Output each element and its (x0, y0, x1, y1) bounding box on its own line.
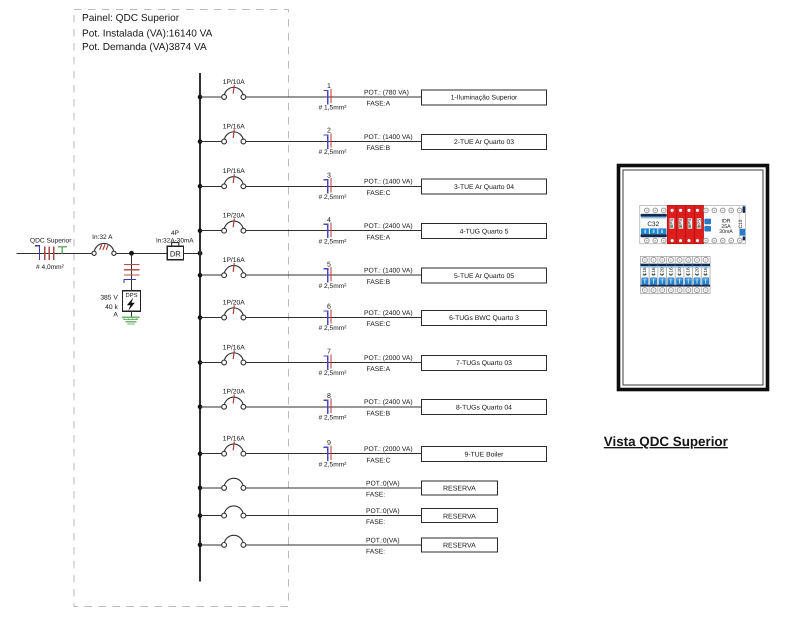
svg-text:30mA: 30mA (719, 229, 733, 235)
wire breaker to load circuit 8 (246, 406, 422, 408)
node bus junction circuit 1 (198, 95, 203, 100)
circuit 3 number label (327, 173, 331, 180)
svg-text:# 2,5mm²: # 2,5mm² (319, 238, 348, 245)
circuit 2 number label (327, 128, 331, 135)
caption Vista QDC Superior (604, 434, 729, 449)
breaker C20 (panel row2 pos 7) (693, 257, 702, 294)
feeder cable size label # 4,0mm2 (36, 264, 65, 271)
breaker C16 (panel row2 pos 2) (649, 257, 658, 294)
wire DR to bus (184, 252, 200, 254)
circuit 1 phase tick (red) (330, 89, 332, 103)
circuit 3 POT/FASE labels (364, 179, 413, 197)
svg-text:POT.:0(VA): POT.:0(VA) (366, 508, 400, 515)
svg-text:5-TUE Ar Quarto 05: 5-TUE Ar Quarto 05 (454, 273, 514, 280)
breaker reserva 1 (222, 478, 246, 490)
svg-text:40 k: 40 k (105, 304, 118, 311)
circuit 8 load box (421, 400, 546, 415)
svg-text:FASE:C: FASE:C (367, 190, 391, 197)
wire breaker to reserva box 2 (246, 515, 422, 517)
breaker C10 (panel) (738, 206, 745, 240)
circuit 9 number label (327, 440, 331, 447)
node bus junction reserva 1 (198, 486, 203, 491)
wire bus to breaker circuit 9 (200, 453, 222, 455)
circuit 7 phase tick (red) (330, 354, 332, 368)
wire breaker to DR (116, 252, 167, 254)
breaker 1P/16A circuit 9 (222, 436, 246, 457)
svg-text:FASE:B: FASE:B (367, 145, 391, 152)
svg-text:1P/16A: 1P/16A (223, 436, 245, 443)
node junction to DPS (129, 251, 134, 256)
svg-text:# 2,5mm²: # 2,5mm² (319, 325, 348, 332)
circuit 7 cable size label (319, 370, 348, 377)
breaker 1P/16A circuit 5 (222, 257, 246, 278)
svg-text:# 4,0mm²: # 4,0mm² (36, 264, 65, 271)
svg-text:4P: 4P (171, 230, 179, 237)
circuit 9 POT/FASE labels (364, 446, 413, 464)
circuit 2 neutral tick (blue) (324, 135, 328, 149)
circuit 6 neutral tick (blue) (324, 311, 328, 325)
wire bus to breaker circuit 5 (200, 274, 222, 276)
svg-text:FASE:: FASE: (366, 519, 385, 526)
node bus junction circuit 3 (198, 184, 203, 189)
circuit 3 cable size label (319, 194, 348, 201)
circuit 3 load box (421, 179, 546, 194)
reserva 1 box (421, 481, 497, 495)
svg-text:385 V: 385 V (100, 295, 118, 302)
svg-text:FASE:C: FASE:C (367, 321, 391, 328)
circuit 5 load box (421, 268, 546, 283)
wire bus to breaker circuit 2 (200, 141, 222, 143)
svg-text:# 2,5mm²: # 2,5mm² (319, 461, 348, 468)
svg-text:7-TUGs Quarto 03: 7-TUGs Quarto 03 (456, 360, 512, 367)
wire bus to breaker circuit 3 (200, 185, 222, 187)
node QDC Superior label (30, 238, 72, 245)
node bus junction circuit 9 (198, 451, 203, 456)
wire bus to breaker circuit 7 (200, 362, 222, 364)
svg-text:FASE:A: FASE:A (367, 234, 391, 241)
breaker C20 (panel row2 pos 3) (658, 257, 667, 294)
circuit 8 neutral tick (blue) (324, 400, 328, 414)
svg-text:# 2,5mm²: # 2,5mm² (319, 370, 348, 377)
svg-text:In:32A-30mA: In:32A-30mA (156, 237, 194, 244)
circuit 1 load box (421, 90, 546, 105)
svg-text:1P/20A: 1P/20A (223, 299, 245, 306)
circuit 8 POT/FASE labels (364, 399, 413, 417)
node bus junction circuit 7 (198, 360, 203, 365)
svg-text:6-TUGs BWC Quarto 3: 6-TUGs BWC Quarto 3 (449, 315, 519, 322)
bus vertical (199, 73, 201, 581)
circuit 7 POT/FASE labels (364, 355, 413, 373)
svg-text:POT.: (1400 VA): POT.: (1400 VA) (364, 179, 413, 186)
DPS drop neutral tick (blue) (124, 280, 136, 284)
node bus junction circuit 2 (198, 139, 203, 144)
circuit 8 number label (327, 393, 331, 400)
breaker C16 (panel row2 pos 1) (641, 257, 650, 294)
svg-text:POT.: (2000 VA): POT.: (2000 VA) (364, 355, 413, 362)
svg-text:1P/16A: 1P/16A (223, 168, 245, 175)
circuit 6 phase tick (red) (330, 309, 332, 323)
circuit 5 POT/FASE labels (364, 268, 413, 286)
svg-text:FASE:C: FASE:C (367, 457, 391, 464)
breaker 1P/16A circuit 7 (222, 344, 246, 365)
node bus junction reserva 3 (198, 543, 203, 548)
svg-text:DR: DR (170, 249, 181, 258)
svg-text:C10: C10 (738, 219, 744, 228)
wire breaker to load circuit 4 (246, 230, 422, 232)
wire bus to breaker circuit 6 (200, 317, 222, 319)
circuit 2 phase tick (red) (330, 133, 332, 147)
circuit 2 cable size label (319, 149, 348, 156)
circuit 5 cable size label (319, 283, 348, 290)
feeder neutral tick (blue) (35, 246, 39, 260)
svg-text:POT.: (2400 VA): POT.: (2400 VA) (364, 223, 413, 230)
wire DPS to ground (131, 311, 133, 316)
svg-text:In:32 A: In:32 A (92, 234, 113, 241)
reserva 1 POT/FASE labels (366, 480, 400, 498)
circuit 7 load box (421, 355, 546, 370)
circuit 5 neutral tick (blue) (324, 269, 328, 283)
circuit 8 phase tick (red) (330, 399, 332, 413)
circuit 6 cable size label (319, 325, 348, 332)
breaker 1P/16A circuit 2 (222, 123, 246, 144)
wire breaker to load circuit 9 (246, 453, 422, 455)
circuit 1 neutral tick (blue) (324, 90, 328, 104)
residual device DR 4P In:32A-30mA (156, 230, 194, 260)
node bus junction circuit 8 (198, 405, 203, 410)
svg-text:A: A (113, 311, 118, 318)
surge protector DPS (123, 291, 141, 312)
panel enclosure frame (619, 166, 768, 390)
circuit 9 cable size label (319, 461, 348, 468)
svg-text:Pot. Demanda (VA)3874 VA: Pot. Demanda (VA)3874 VA (82, 42, 207, 53)
wire breaker to load circuit 6 (246, 317, 422, 319)
circuit 7 neutral tick (blue) (324, 356, 328, 370)
wire breaker to reserva box 3 (246, 544, 422, 546)
circuit 5 number label (327, 261, 331, 268)
circuit 3 phase tick (red) (330, 178, 332, 192)
DPS rating label 385V 40kA (100, 295, 118, 319)
wire bus to breaker reserva 1 (200, 487, 222, 489)
feeder ground tick (green T) (58, 247, 67, 254)
reserva 3 POT/FASE labels (366, 537, 400, 555)
circuit 4 phase tick (red) (330, 223, 332, 237)
wire breaker to reserva box 1 (246, 487, 422, 489)
breaker In:32 A (92, 234, 116, 255)
breaker C16 (panel row2 pos 6) (684, 257, 693, 294)
node feeder-bus junction (198, 251, 203, 256)
reserva 2 box (421, 509, 497, 523)
svg-text:1P/20A: 1P/20A (223, 389, 245, 396)
svg-text:FASE:: FASE: (366, 492, 385, 499)
svg-text:DPS: DPS (126, 292, 138, 299)
node bus junction circuit 4 (198, 228, 203, 233)
circuit 1 number label (327, 83, 331, 90)
svg-text:# 2,5mm²: # 2,5mm² (319, 283, 348, 290)
panel boundary dashed box (74, 10, 289, 607)
svg-text:# 1,5mm²: # 1,5mm² (319, 105, 348, 112)
wire bus to breaker reserva 3 (200, 544, 222, 546)
svg-text:# 2,5mm²: # 2,5mm² (319, 149, 348, 156)
svg-text:# 2,5mm²: # 2,5mm² (319, 194, 348, 201)
svg-text:POT.: (2400 VA): POT.: (2400 VA) (364, 399, 413, 406)
wire bus to breaker reserva 2 (200, 515, 222, 517)
breaker 1P/10A circuit 1 (222, 79, 246, 100)
wire bus to breaker circuit 8 (200, 406, 222, 408)
svg-text:POT.:0(VA): POT.:0(VA) (366, 480, 400, 487)
breaker 1P/20A circuit 4 (222, 213, 246, 234)
circuit 4 cable size label (319, 238, 348, 245)
breaker reserva 2 (222, 506, 246, 518)
svg-text:1P/16A: 1P/16A (223, 257, 245, 264)
circuit 1 cable size label (319, 105, 348, 112)
DIN rail row 1 (640, 205, 746, 243)
circuit 9 load box (421, 447, 546, 462)
svg-text:8-TUGs Quarto 04: 8-TUGs Quarto 04 (456, 405, 512, 412)
breaker C16 (panel row2 pos 8) (701, 257, 710, 294)
svg-text:POT.: (780 VA): POT.: (780 VA) (364, 89, 409, 96)
circuit 6 POT/FASE labels (364, 310, 413, 328)
ground symbol (122, 317, 140, 324)
feeder phase ticks (red) (45, 246, 54, 260)
wire breaker to load circuit 7 (246, 362, 422, 364)
circuit 5 phase tick (red) (330, 267, 332, 281)
circuit 2 POT/FASE labels (364, 134, 413, 152)
circuit 8 cable size label (319, 414, 348, 421)
svg-text:POT.: (2000 VA): POT.: (2000 VA) (364, 446, 413, 453)
circuit 9 phase tick (red) (330, 446, 332, 460)
svg-text:RESERVA: RESERVA (443, 486, 476, 493)
svg-text:2-TUE Ar Quarto 03: 2-TUE Ar Quarto 03 (454, 139, 514, 146)
circuit 4 POT/FASE labels (364, 223, 413, 241)
circuit 9 neutral tick (blue) (324, 447, 328, 461)
svg-text:POT.: (1400 VA): POT.: (1400 VA) (364, 268, 413, 275)
svg-text:POT.: (1400 VA): POT.: (1400 VA) (364, 134, 413, 141)
svg-text:FASE:B: FASE:B (367, 279, 391, 286)
circuit 4 load box (421, 224, 546, 239)
node bus junction circuit 5 (198, 273, 203, 278)
svg-text:RESERVA: RESERVA (443, 543, 476, 550)
circuit 1 POT/FASE labels (364, 89, 409, 107)
svg-text:1P/16A: 1P/16A (223, 123, 245, 130)
wire DPS drop (131, 253, 133, 290)
svg-text:9-TUE Boiler: 9-TUE Boiler (465, 451, 505, 458)
DPS drop phase ticks (red) (124, 265, 139, 276)
wire incoming feeder (17, 252, 93, 254)
reserva 2 POT/FASE labels (366, 508, 400, 526)
svg-text:QDC Superior: QDC Superior (30, 238, 72, 245)
circuit 7 number label (327, 349, 331, 356)
node bus junction circuit 6 (198, 315, 203, 320)
wire bus to breaker circuit 4 (200, 230, 222, 232)
svg-text:FASE:A: FASE:A (367, 101, 391, 108)
terminal screws row 1 (645, 208, 742, 243)
wire breaker to load circuit 3 (246, 185, 422, 187)
reserva 3 box (421, 538, 497, 552)
circuit 4 neutral tick (blue) (324, 224, 328, 238)
breaker reserva 3 (222, 535, 246, 547)
svg-text:FASE:B: FASE:B (367, 410, 391, 417)
breaker 1P/20A circuit 8 (222, 389, 246, 410)
svg-text:POT.: (2400 VA): POT.: (2400 VA) (364, 310, 413, 317)
node bus junction reserva 2 (198, 513, 203, 518)
svg-text:1P/10A: 1P/10A (223, 79, 245, 86)
svg-text:Pot. Instalada (VA):16140 VA: Pot. Instalada (VA):16140 VA (82, 29, 213, 40)
wire breaker to load circuit 5 (246, 274, 422, 276)
svg-text:POT.:0(VA): POT.:0(VA) (366, 537, 400, 544)
svg-text:1P/16A: 1P/16A (223, 344, 245, 351)
circuit 6 number label (327, 304, 331, 311)
breaker C16 (panel row2 pos 4) (667, 257, 676, 294)
breaker 1P/16A circuit 3 (222, 168, 246, 189)
breaker 1P/20A circuit 6 (222, 299, 246, 320)
svg-text:FASE:: FASE: (366, 549, 385, 556)
panel title text (82, 13, 213, 53)
circuit 2 load box (421, 134, 546, 149)
surge modules DPS x4 (panel) (667, 205, 703, 243)
svg-text:1P/20A: 1P/20A (223, 213, 245, 220)
svg-text:C32: C32 (647, 221, 659, 228)
wire bus to breaker circuit 1 (200, 96, 222, 98)
svg-text:FASE:A: FASE:A (367, 366, 391, 373)
svg-text:# 2,5mm²: # 2,5mm² (319, 414, 348, 421)
svg-text:RESERVA: RESERVA (443, 513, 476, 520)
residual breaker IDR 25A 30mA (panel) (704, 219, 733, 236)
svg-text:Painel: QDC Superior: Painel: QDC Superior (82, 13, 180, 24)
circuit 6 load box (421, 310, 546, 325)
circuit 3 neutral tick (blue) (324, 180, 328, 194)
breaker C20 (panel row2 pos 5) (675, 257, 684, 294)
svg-text:Vista QDC Superior: Vista QDC Superior (604, 434, 729, 449)
svg-text:4-TUG Quarto 5: 4-TUG Quarto 5 (460, 228, 509, 235)
wire breaker to load circuit 2 (246, 141, 422, 143)
breaker C32 (panel) (641, 214, 667, 237)
svg-text:3-TUE Ar Quarto 04: 3-TUE Ar Quarto 04 (454, 184, 514, 191)
DIN rail row 2 (641, 257, 711, 294)
circuit 4 number label (327, 217, 331, 224)
svg-text:1-Iluminação Superior: 1-Iluminação Superior (451, 95, 518, 102)
wire breaker to load circuit 1 (246, 96, 422, 98)
